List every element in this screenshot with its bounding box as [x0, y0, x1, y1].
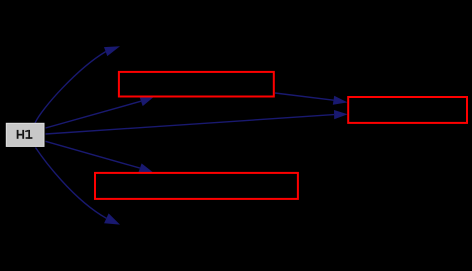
- edge H1 to box2 lower: arrowhead: [334, 110, 348, 119]
- edge box1 to box2 upper: arrowhead: [333, 96, 348, 105]
- edge H1 to box1: arrowhead: [139, 96, 154, 106]
- edge H1 to lower-left node: arrowhead: [104, 213, 120, 224]
- node box2 (right, red border): [348, 97, 467, 123]
- node H1 label "H" glyph: [17, 130, 24, 139]
- edge H1 to box1: wire: [46, 101, 142, 128]
- edge H1 to lower-left node: curved wire: [36, 148, 107, 219]
- node box3 (bottom, red border): [95, 173, 298, 199]
- edge H1 to upper-left node: arrowhead: [104, 46, 120, 56]
- edge box1 to box2 upper: wire: [275, 93, 334, 100]
- node box1 (middle, red border): [119, 72, 274, 97]
- edge H1 to box3: arrowhead: [138, 163, 153, 173]
- edge H1 to upper-left node: curved wire: [35, 52, 106, 123]
- edge H1 to box3: wire: [46, 141, 140, 168]
- node H1 box: [6, 123, 44, 146]
- node H1 label "1" glyph: [25, 130, 32, 139]
- edge H1 to box2 lower: wire: [46, 115, 335, 134]
